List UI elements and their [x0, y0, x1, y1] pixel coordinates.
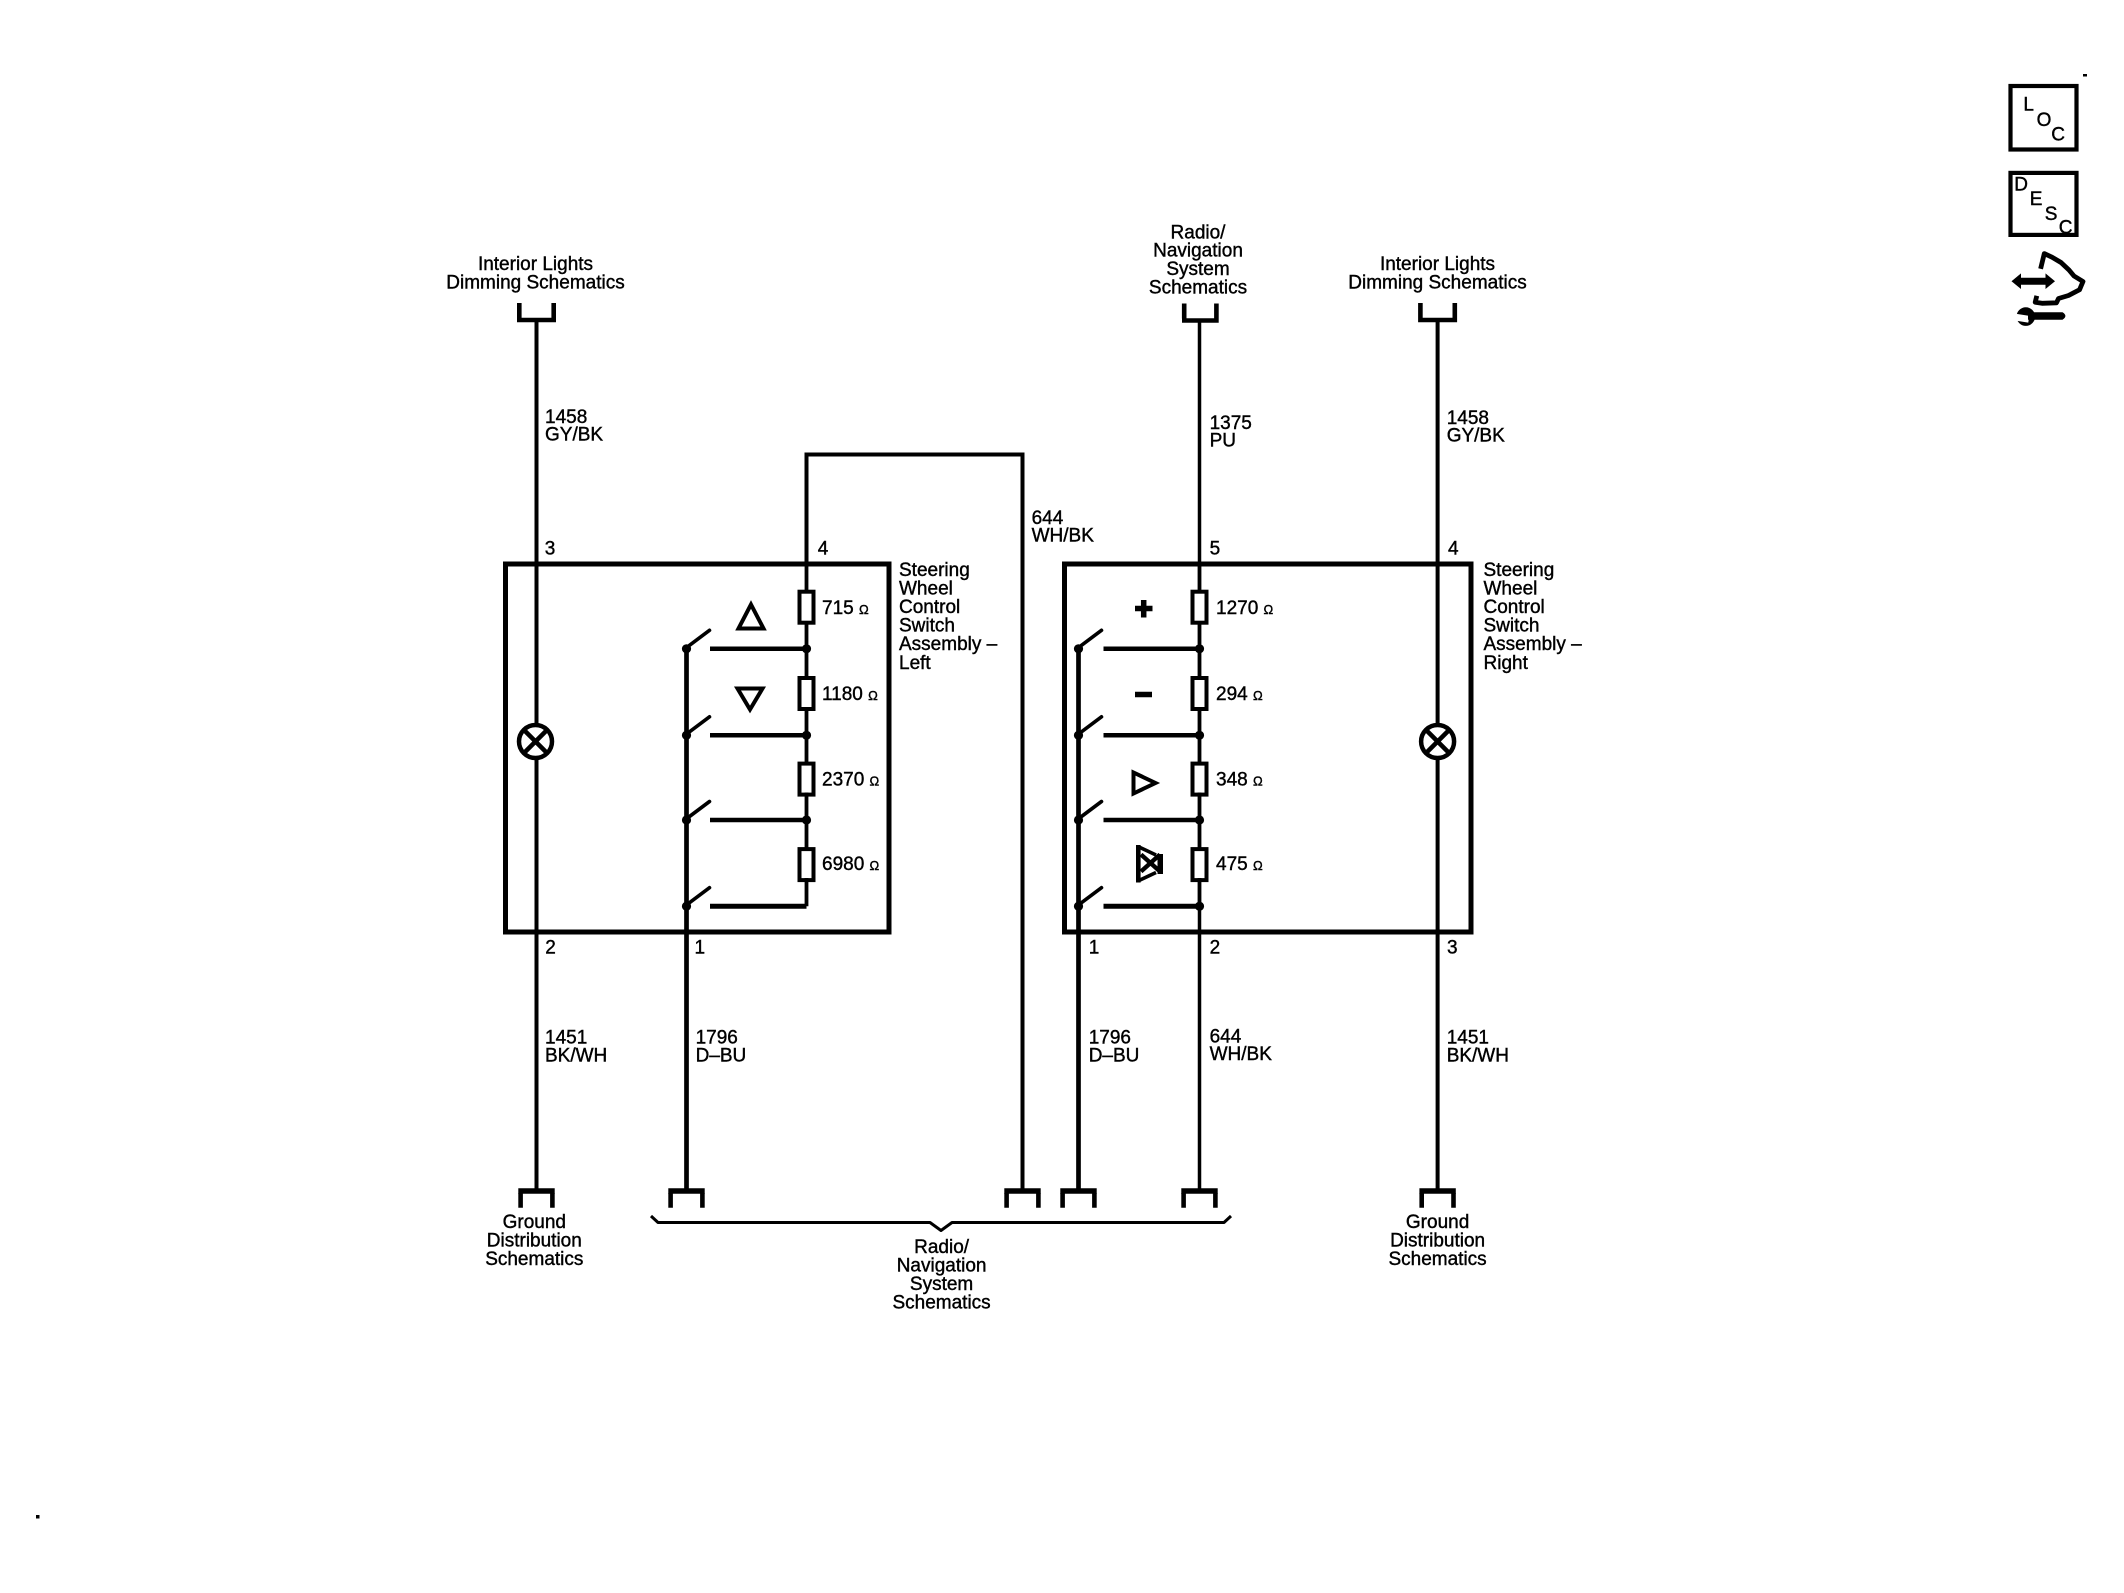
svg-text:1270 Ω: 1270 Ω — [1216, 598, 1274, 619]
off-page connector (bottom, 1451 BK/WH left) — [518, 1188, 554, 1194]
svg-text:GY/BK: GY/BK — [545, 425, 603, 446]
wire pin 4 to lamp (right box) — [1436, 564, 1440, 726]
symbol: minus (volume down) — [1135, 692, 1152, 698]
contact row 1 (right box) — [1104, 647, 1201, 652]
contact row 4 (left box) — [710, 904, 807, 909]
wire 1458 GY/BK (left, to pin 3) — [535, 321, 539, 564]
contact row 2 (left box) — [710, 733, 807, 738]
svg-text:4: 4 — [818, 539, 829, 560]
svg-text:715 Ω: 715 Ω — [822, 598, 869, 619]
switch common line (left box) — [684, 649, 689, 1190]
switch lever 1 (left box, up) — [682, 644, 691, 653]
label: Ground Distribution Schematics (left) — [485, 1212, 583, 1270]
off-page connector (top left) — [517, 303, 556, 320]
symbol: plus (volume up) — [1135, 600, 1153, 618]
label: Radio/Navigation System Schematics (bottom) — [892, 1237, 990, 1314]
svg-text:3: 3 — [545, 539, 556, 560]
wire pin 2 down from row 4 (right box) — [1198, 906, 1202, 1190]
icon: wrench — [2010, 307, 2065, 326]
symbol: mute speaker with X — [1136, 845, 1163, 883]
node: Interior Lights Dimming Schematics (left) — [446, 254, 624, 294]
mark: stray dot top right — [2083, 74, 2087, 77]
svg-text:Schematics: Schematics — [1149, 277, 1247, 298]
contact row 1 (left box) — [710, 647, 807, 652]
label: Steering Wheel Control Switch Assembly - Right — [1484, 560, 1583, 674]
switch lever 1 (right box, vol +) — [1074, 644, 1083, 653]
wire pin 5 to resistor chain (right box) — [1198, 564, 1202, 906]
label: Ground Distribution Schematics (right) — [1388, 1212, 1486, 1270]
switch common line (right box) — [1076, 649, 1081, 1190]
svg-text:O: O — [2037, 110, 2052, 131]
svg-text:2370 Ω: 2370 Ω — [822, 770, 880, 791]
svg-text:Right: Right — [1484, 653, 1529, 674]
svg-text:C: C — [2059, 218, 2073, 239]
switch lever 4 (right box, mute) — [1074, 902, 1083, 911]
label: Steering Wheel Control Switch Assembly - Left — [899, 560, 998, 674]
component: Steering Wheel Control Switch Assembly - Left (box) — [506, 564, 890, 932]
resistor R 475 ohm — [1193, 849, 1207, 880]
brace: radio/navigation system schematics group — [651, 1216, 1231, 1231]
icon: double-headed arrow — [2012, 273, 2056, 289]
svg-text:L: L — [2023, 95, 2034, 116]
wire pin3 to lamp (left box) — [535, 564, 539, 726]
svg-text:GY/BK: GY/BK — [1447, 426, 1505, 447]
switch lever 2 (left box, down) — [682, 731, 691, 740]
svg-text:E: E — [2030, 189, 2043, 210]
svg-text:Left: Left — [899, 653, 931, 674]
node: Radio/Navigation System Schematics (top middle) — [1149, 222, 1247, 298]
wire 644 WH/BK elbow from left box pin 4 up and right then down — [807, 455, 1023, 1190]
contact row 3 (right box) — [1104, 818, 1201, 823]
off-page connector (bottom, 644 WH/BK) — [1004, 1188, 1040, 1194]
resistor R 294 ohm — [1193, 678, 1207, 709]
resistor R 2370 ohm — [800, 764, 814, 795]
svg-text:Schematics: Schematics — [892, 1293, 990, 1314]
component: Steering Wheel Control Switch Assembly - Right (box) — [1065, 564, 1472, 932]
icon: LOC box — [2011, 86, 2077, 150]
switch lever 4 (left box) — [682, 902, 691, 911]
wire lamp to pin 3 and bottom connector (right box) — [1436, 757, 1440, 1190]
svg-text:D–BU: D–BU — [1089, 1046, 1140, 1067]
contact row 2 (right box) — [1104, 733, 1201, 738]
svg-text:348 Ω: 348 Ω — [1216, 770, 1263, 791]
wire lamp to pin 2 and bottom connector — [535, 757, 539, 1190]
svg-text:WH/BK: WH/BK — [1032, 526, 1095, 547]
svg-text:4: 4 — [1448, 539, 1459, 560]
symbol: up arrow (seek up) — [739, 605, 764, 629]
off-page connector (top middle) — [1182, 304, 1219, 321]
svg-text:Dimming Schematics: Dimming Schematics — [1348, 273, 1526, 294]
svg-text:475 Ω: 475 Ω — [1216, 854, 1263, 875]
svg-text:1: 1 — [1089, 938, 1100, 959]
svg-text:2: 2 — [1210, 938, 1221, 959]
svg-text:3: 3 — [1447, 938, 1458, 959]
svg-text:6980 Ω: 6980 Ω — [822, 854, 880, 875]
wire 1375 PU (to pin 5) — [1198, 322, 1202, 565]
svg-text:5: 5 — [1210, 539, 1221, 560]
resistor R 1270 ohm — [1193, 592, 1207, 623]
icon: flash arrow outline — [2035, 254, 2083, 304]
svg-text:BK/WH: BK/WH — [545, 1046, 607, 1067]
wire 1458 GY/BK (right, to pin 4) — [1436, 321, 1440, 564]
svg-text:PU: PU — [1210, 431, 1236, 452]
off-page connector (bottom, 1451 BK/WH right) — [1419, 1188, 1455, 1194]
icon: DESC box — [2011, 173, 2077, 235]
contact row 4 (right box) — [1104, 904, 1201, 909]
svg-text:Schematics: Schematics — [1388, 1249, 1486, 1270]
node: Interior Lights Dimming Schematics (right) — [1348, 254, 1526, 294]
symbol: down arrow (seek down) — [738, 689, 763, 710]
off-page connector (top right) — [1418, 303, 1457, 320]
off-page connector (bottom, 1796 D-BU left) — [668, 1188, 704, 1194]
svg-text:Schematics: Schematics — [485, 1249, 583, 1270]
mark: stray dot bottom left — [36, 1515, 40, 1519]
svg-text:D–BU: D–BU — [696, 1046, 747, 1067]
switch lever 3 (left box) — [682, 815, 691, 824]
lamp (left box illumination) — [519, 725, 552, 758]
resistor R 6980 ohm — [800, 849, 814, 880]
svg-text:C: C — [2051, 124, 2065, 145]
svg-text:1180 Ω: 1180 Ω — [822, 684, 878, 705]
svg-text:2: 2 — [545, 938, 556, 959]
resistor R 715 ohm — [800, 592, 814, 623]
svg-text:D: D — [2014, 174, 2028, 195]
symbol: play/seek triangle — [1134, 773, 1156, 794]
switch lever 3 (right box, seek) — [1074, 815, 1083, 824]
off-page connector (bottom, 644 WH/BK right) — [1181, 1188, 1217, 1194]
off-page connector (bottom, 1796 D-BU right) — [1060, 1188, 1096, 1194]
resistor chain vertical (left box) — [805, 564, 809, 906]
resistor R 348 ohm — [1193, 764, 1207, 795]
svg-text:S: S — [2045, 204, 2058, 225]
svg-text:1: 1 — [695, 938, 706, 959]
resistor R 1180 ohm — [800, 678, 814, 709]
svg-text:294 Ω: 294 Ω — [1216, 684, 1263, 705]
contact row 3 (left box) — [710, 818, 807, 823]
svg-text:BK/WH: BK/WH — [1447, 1046, 1509, 1067]
lamp (right box illumination) — [1421, 725, 1454, 758]
svg-text:Dimming Schematics: Dimming Schematics — [446, 273, 624, 294]
switch lever 2 (right box, vol -) — [1074, 731, 1083, 740]
svg-text:WH/BK: WH/BK — [1210, 1044, 1273, 1065]
